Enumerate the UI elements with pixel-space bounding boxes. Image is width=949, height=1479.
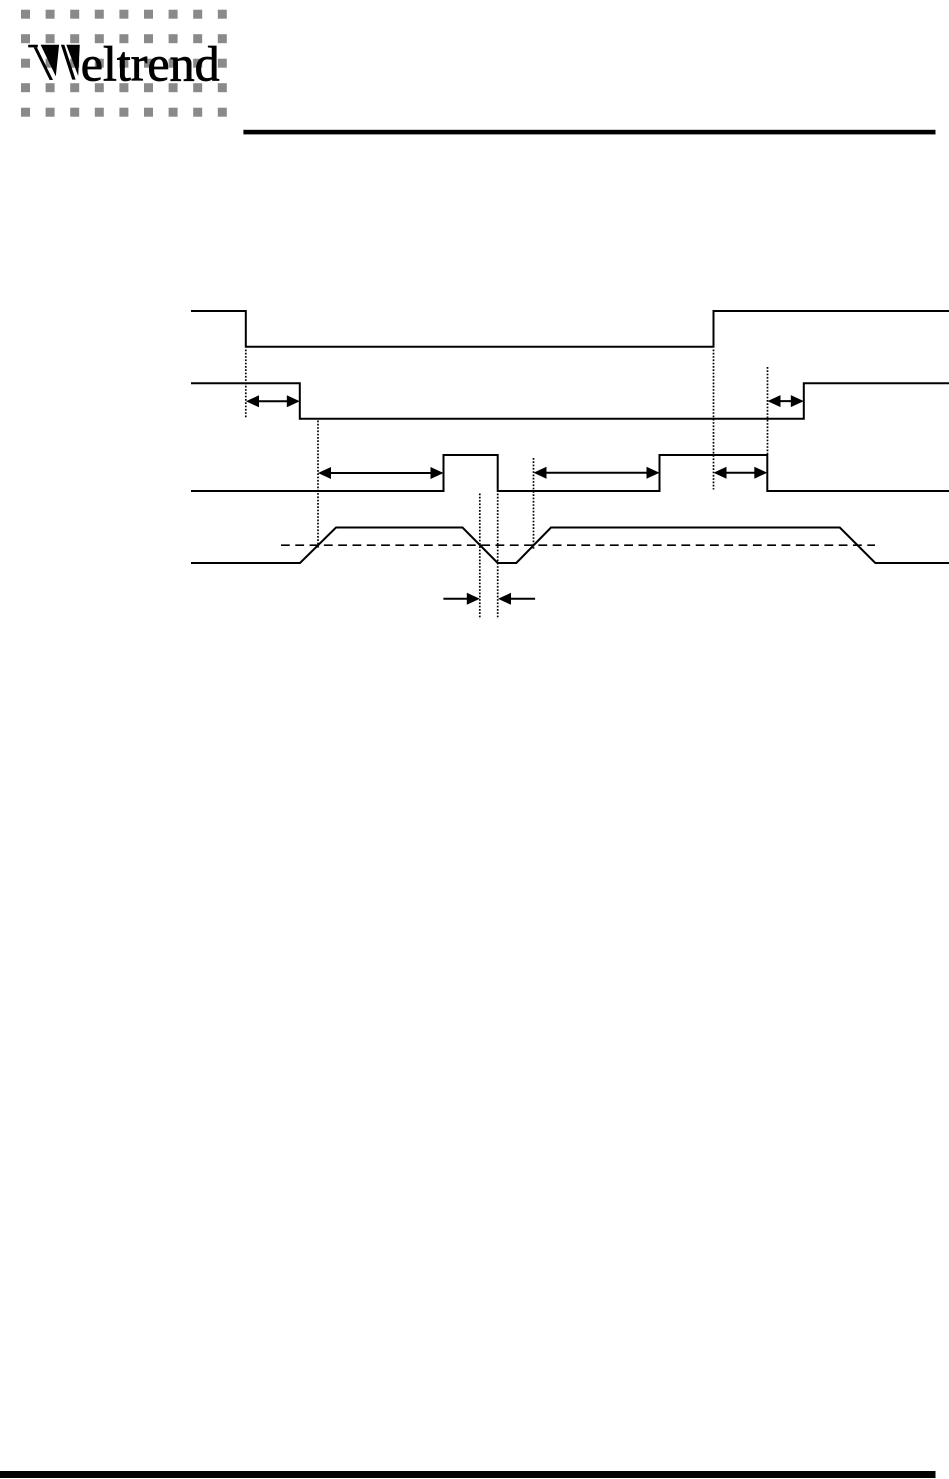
signal 4 waveform <box>191 528 949 564</box>
arrow A4 <box>714 467 768 479</box>
dotted line D5 <box>533 458 535 549</box>
header rule <box>243 130 935 135</box>
threshold dashed line <box>281 544 875 546</box>
bottom bar <box>0 1471 936 1478</box>
dotted line D1 <box>245 350 247 418</box>
svg-text:eltrend: eltrend <box>81 36 220 92</box>
logo dot grid <box>21 10 227 117</box>
arrow A6 <box>443 593 479 605</box>
dotted line D4 <box>497 494 499 620</box>
arrow A5 <box>768 395 804 407</box>
dotted line D2 <box>317 421 319 549</box>
dotted line D7 <box>767 367 769 454</box>
arrow A3 <box>534 467 660 479</box>
dotted line D3 <box>479 494 481 620</box>
signal 2 waveform <box>191 383 949 419</box>
signal 3 waveform <box>191 455 949 491</box>
arrow A1 <box>246 395 300 407</box>
arrow A7 <box>498 593 535 605</box>
logo W mark <box>28 45 80 80</box>
signal 1 waveform <box>191 311 949 347</box>
arrow A2 <box>318 467 444 479</box>
dotted line D6 <box>713 350 715 490</box>
